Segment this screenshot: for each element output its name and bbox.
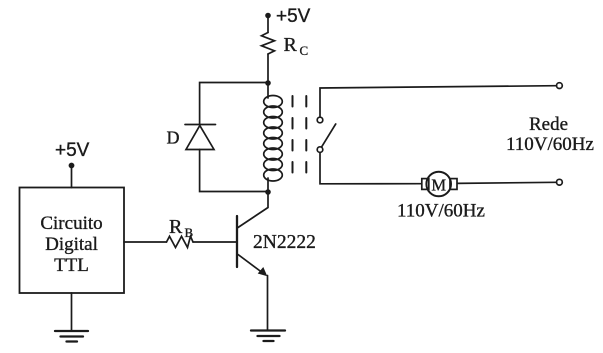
ground (TTL box) bbox=[55, 331, 88, 342]
svg-text:2N2222: 2N2222 bbox=[253, 232, 316, 253]
label Rede 110V/60Hz bbox=[506, 114, 594, 155]
svg-text:M: M bbox=[431, 175, 446, 194]
wire node A to diode cathode bbox=[200, 83, 268, 125]
wire node B to collector bbox=[238, 192, 268, 228]
ground (emitter) bbox=[251, 331, 285, 342]
wire emitter to ground bbox=[267, 276, 269, 331]
svg-text:C: C bbox=[300, 43, 309, 58]
svg-text:R: R bbox=[284, 34, 298, 56]
svg-text:B: B bbox=[185, 225, 194, 240]
terminal (top right) bbox=[557, 83, 563, 89]
power +5V node (collector supply) bbox=[265, 6, 310, 27]
svg-text:Circuito: Circuito bbox=[40, 213, 102, 234]
node B junction bbox=[265, 189, 271, 195]
wire +5V to TTL box bbox=[71, 166, 73, 188]
svg-text:+5V: +5V bbox=[55, 140, 90, 161]
svg-text:D: D bbox=[167, 128, 180, 148]
motor M bbox=[422, 172, 457, 197]
terminal (bottom right) bbox=[557, 179, 563, 185]
power +5V node (TTL box) bbox=[55, 140, 90, 168]
transistor Q1 2N2222 bbox=[237, 216, 267, 276]
diode D bbox=[185, 125, 216, 150]
svg-text:TTL: TTL bbox=[54, 255, 89, 276]
wire motor to bottom terminal bbox=[457, 182, 556, 183]
relay contact fixed (top) bbox=[317, 117, 323, 123]
wire TTL box to RB bbox=[124, 241, 167, 243]
TTL box bbox=[20, 188, 125, 294]
wire TTL box to ground bbox=[71, 293, 73, 331]
wire RC to node A bbox=[267, 54, 269, 83]
svg-text:110V/60Hz: 110V/60Hz bbox=[506, 134, 594, 155]
label Circuito Digital TTL bbox=[40, 213, 102, 276]
svg-text:Rede: Rede bbox=[529, 114, 568, 135]
resistor RC bbox=[262, 33, 275, 55]
wire RB to base bbox=[193, 241, 236, 243]
relay contact arm bbox=[322, 124, 336, 147]
wire bottom contact to motor bbox=[320, 152, 421, 183]
svg-text:110V/60Hz: 110V/60Hz bbox=[397, 201, 485, 222]
node A junction bbox=[265, 80, 271, 86]
svg-text:R: R bbox=[169, 216, 183, 238]
relay linkage (dashed) bbox=[293, 96, 307, 181]
label RB bbox=[169, 216, 194, 240]
label RC bbox=[284, 34, 309, 58]
wire +5V to RC bbox=[267, 16, 269, 33]
svg-text:Digital: Digital bbox=[45, 234, 98, 255]
relay contact pivot (bottom) bbox=[317, 147, 323, 153]
wire diode anode to node B bbox=[200, 150, 268, 192]
wire top contact to top terminal bbox=[320, 86, 557, 118]
svg-text:+5V: +5V bbox=[276, 6, 311, 27]
resistor RB bbox=[167, 236, 194, 247]
relay coil (primary) bbox=[264, 83, 283, 192]
